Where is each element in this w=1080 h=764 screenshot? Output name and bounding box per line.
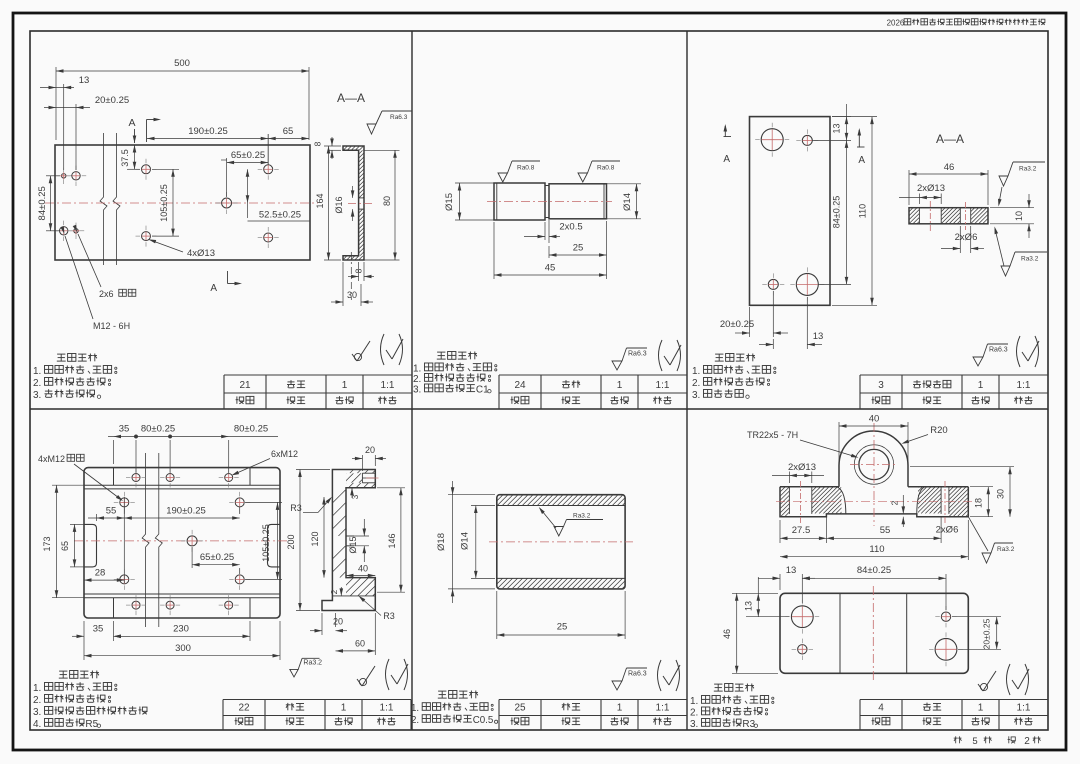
svg-text:37.5: 37.5: [120, 149, 130, 167]
cell1 break lines: [100, 133, 107, 265]
svg-text:Ø15: Ø15: [444, 193, 455, 211]
cell1 label 2x6 through hole: [78, 234, 101, 287]
svg-text:25: 25: [514, 703, 526, 714]
cell3 dim 13 bottom: [806, 297, 808, 349]
cell1 dim 37.5: [127, 168, 140, 170]
cell1 dim 84+-0.25 vertical: [46, 175, 60, 177]
surface mark cell 3: [973, 357, 983, 366]
svg-text:80: 80: [382, 196, 392, 206]
cell2 Ra0.8 mark left: [498, 173, 508, 182]
svg-text:52.5±0.25: 52.5±0.25: [259, 210, 301, 221]
title table part 21: [224, 374, 412, 376]
cell6 dim 40: [838, 422, 840, 461]
cell5 centerline: [489, 541, 633, 543]
svg-text:20: 20: [365, 445, 375, 455]
svg-text:M12 - 6H: M12 - 6H: [93, 321, 130, 331]
cell6 dim 46: [732, 592, 778, 594]
svg-text:1: 1: [617, 703, 623, 714]
cell1 dim 164: [324, 145, 341, 147]
cell1 hole 2x6 top: [62, 174, 66, 178]
cell1 dim 8 bottom flange: [358, 262, 360, 281]
cell6 dim 27.5: [779, 520, 781, 543]
svg-text:3.: 3.: [692, 390, 700, 401]
cell6 dim 13 left vertical: [757, 577, 759, 617]
cell4 dim 146 side: [377, 487, 405, 489]
svg-text:3: 3: [878, 380, 884, 391]
cell3 dim 110: [832, 116, 877, 118]
svg-text:A: A: [210, 283, 217, 294]
svg-text:1.: 1.: [33, 366, 41, 377]
cell1 hole d13 top-left: [142, 165, 151, 174]
svg-text:13: 13: [79, 75, 90, 86]
svg-text:1: 1: [617, 380, 623, 391]
cell4 side view slot top (tapped hole side view): [362, 472, 375, 474]
cell2 dim 45: [493, 222, 495, 279]
svg-text:60: 60: [355, 639, 365, 649]
cell4 plate outline: [84, 468, 280, 618]
cell3 section hole centerlines: [929, 201, 931, 231]
grid divider vertical 2: [686, 31, 688, 730]
svg-text:Ra6.3: Ra6.3: [628, 671, 647, 678]
svg-text:4xM12: 4xM12: [38, 454, 65, 464]
svg-text:500: 500: [174, 58, 190, 69]
cell4 dim 3 small: [351, 488, 353, 498]
cell4 dim 190+-0.25: [239, 507, 241, 514]
svg-text:1:1: 1:1: [380, 703, 394, 714]
cell4 dim 65+-0.25 center: [191, 547, 193, 568]
svg-text:2.: 2.: [33, 695, 41, 706]
cell1 hole M12 top: [72, 172, 80, 180]
cell4 break lines: [142, 453, 149, 627]
svg-text:1.: 1.: [692, 366, 700, 377]
svg-text:24: 24: [514, 380, 526, 391]
svg-text:1: 1: [978, 380, 984, 391]
svg-text:1:1: 1:1: [656, 380, 670, 391]
cell4 side hole lines: [346, 535, 354, 537]
svg-text:Ra6.3: Ra6.3: [628, 351, 647, 358]
svg-text:1.: 1.: [413, 364, 421, 375]
cell4 right notch: [268, 524, 281, 567]
tech notes cell 1: [57, 353, 65, 355]
cell2 dim 25: [606, 221, 608, 259]
cell6 boss dome R20: [839, 431, 908, 487]
cell5 Ra3.2 mark with leader: [554, 527, 564, 537]
title table part 25: [499, 699, 687, 701]
cell4 holes second row: [120, 498, 129, 507]
cell3 section bar outline: [909, 208, 988, 224]
svg-text:1: 1: [978, 703, 984, 714]
svg-text:1.: 1.: [690, 696, 698, 707]
svg-text:120: 120: [310, 531, 320, 546]
cell3 section hole edge lines: [918, 208, 920, 224]
svg-text:Ra3.2: Ra3.2: [1021, 256, 1039, 263]
cell1 hole d13 bottom-right: [264, 233, 273, 242]
cell6 bottom hole d6 right: [941, 612, 950, 621]
cell6 dim 84+-0.25 bottom view: [945, 574, 947, 610]
cell4 dim 20 side bottom: [321, 613, 323, 635]
cell4 bottom dim 230: [249, 621, 251, 641]
svg-text:20±0.25: 20±0.25: [982, 618, 992, 649]
tech notes cell 2: [437, 351, 445, 353]
cell4 dim 20 top slot: [361, 455, 363, 471]
svg-text:1.: 1.: [33, 683, 41, 694]
cell3 dim 13 right: [832, 116, 851, 118]
svg-text:A: A: [723, 154, 730, 165]
cell4 side view inner line: [332, 595, 375, 597]
surface mark cell 5: [612, 681, 622, 690]
cell4 dim 65 notch: [70, 523, 84, 525]
cell6 section fillet curves: [836, 487, 846, 514]
cell4 rail lines bottom: [84, 593, 280, 595]
svg-text:30: 30: [996, 489, 1006, 499]
svg-text:30: 30: [347, 290, 357, 300]
tech notes cell 6: [714, 683, 722, 685]
svg-text:Ra3.2: Ra3.2: [303, 660, 322, 667]
cell1 hole M12 bottom: [60, 227, 68, 235]
cell4 holes bottom row: [132, 601, 140, 609]
svg-text:230: 230: [173, 624, 189, 635]
svg-text:173: 173: [42, 536, 52, 551]
svg-text:25: 25: [557, 622, 568, 633]
svg-text:A—A: A—A: [936, 132, 964, 146]
surface mark cell 6: [980, 683, 987, 690]
cell4 rail lines top: [84, 484, 280, 486]
cell5 dim d14: [471, 505, 495, 507]
svg-text:55: 55: [106, 506, 117, 517]
svg-text:105±0.25: 105±0.25: [261, 524, 271, 561]
svg-text:2: 2: [329, 589, 339, 594]
cell3 dim 84+-0.25: [812, 139, 851, 141]
cell4 dim 200 side: [296, 469, 330, 471]
svg-text:80±0.25: 80±0.25: [234, 424, 268, 435]
cell3 Ra3.2 mark bottom: [1001, 266, 1010, 276]
svg-text:13: 13: [832, 123, 842, 133]
cell6 centerlines base holes: [800, 481, 802, 524]
cell6 bottom view outline: [780, 593, 968, 673]
grid divider vertical 1: [411, 31, 413, 730]
cell6 dim 20+-0.25 right: [952, 616, 1001, 618]
cell1 channel centerline: [348, 203, 372, 205]
cell1 dim 65+-0.25: [226, 158, 228, 197]
svg-text:1:1: 1:1: [1017, 380, 1031, 391]
surface mark Ra3.2 cell 4: [290, 669, 298, 677]
svg-text:R3: R3: [383, 611, 395, 621]
svg-text:C1: C1: [476, 385, 489, 396]
cell6 base top edges: [780, 486, 839, 488]
cell4 center hole: [187, 536, 197, 546]
tech notes cell 3: [715, 353, 723, 355]
svg-text:2xØ13: 2xØ13: [788, 462, 816, 473]
cell2 shaft body d15: [494, 183, 545, 220]
svg-text:1:1: 1:1: [1017, 703, 1031, 714]
cell4 dim 60 side: [374, 613, 376, 655]
cell3 dim 20+-0.25: [749, 307, 751, 337]
svg-text:45: 45: [545, 263, 556, 274]
svg-text:3.: 3.: [690, 719, 698, 730]
cell1 dim 105+-0.25: [152, 168, 179, 170]
svg-text:46: 46: [722, 629, 732, 639]
svg-text:2: 2: [1024, 736, 1030, 747]
cell5 dim d18: [448, 494, 495, 496]
svg-text:65±0.25: 65±0.25: [231, 150, 265, 161]
cell1 dim 52.5+-0.25: [247, 169, 249, 218]
svg-text:84±0.25: 84±0.25: [37, 186, 48, 220]
cell1 dim 30: [342, 262, 344, 306]
svg-text:4.: 4.: [33, 719, 41, 730]
cell4 holes third row: [120, 575, 129, 584]
svg-text:22: 22: [238, 703, 250, 714]
cell4 dim 173: [52, 484, 84, 486]
svg-text:2.: 2.: [33, 378, 41, 389]
svg-text:Ø14: Ø14: [460, 532, 471, 550]
svg-text:Ra3.2: Ra3.2: [1019, 166, 1037, 173]
svg-text:2.: 2.: [413, 374, 421, 385]
svg-text:Ra0.8: Ra0.8: [517, 165, 535, 172]
cell3 Ra3.2 mark top: [999, 176, 1008, 186]
cell1 label 4xd13: [150, 240, 184, 252]
cell3 plate front outline: [750, 117, 831, 306]
svg-text:13: 13: [786, 565, 797, 576]
svg-text:2xØ6: 2xØ6: [936, 525, 959, 536]
cell6 centerline vertical boss: [873, 423, 875, 526]
svg-text:35: 35: [119, 424, 130, 435]
cell2 shaft chamfer right: [603, 184, 605, 219]
cell4 dim 105+-0.25 right: [245, 501, 282, 503]
svg-text:80±0.25: 80±0.25: [141, 424, 175, 435]
tech notes cell 4: [59, 670, 67, 672]
svg-text:A: A: [858, 155, 865, 166]
svg-text:21: 21: [239, 380, 251, 391]
cell6 bottom view centerline: [872, 586, 874, 680]
cell1 dim 20+-0.25: [75, 104, 77, 170]
svg-text:28: 28: [95, 568, 106, 579]
svg-text:18: 18: [974, 498, 984, 508]
cell1 centerline: [45, 202, 318, 204]
cell4 centerline: [74, 540, 290, 542]
svg-text:35: 35: [93, 624, 104, 635]
svg-text:84±0.25: 84±0.25: [832, 196, 842, 228]
cell4 side view outline: [322, 470, 375, 611]
svg-text:110: 110: [869, 544, 884, 555]
svg-text:R20: R20: [930, 425, 947, 436]
cell6 dim 13 top: [779, 574, 781, 590]
svg-text:2xØ13: 2xØ13: [917, 183, 945, 194]
svg-text:2x6: 2x6: [99, 289, 114, 299]
svg-text:27.5: 27.5: [792, 525, 811, 536]
svg-text:3: 3: [351, 494, 360, 499]
svg-text:Ra6.3: Ra6.3: [989, 347, 1008, 354]
cell6 dim 18: [970, 486, 993, 488]
cell3 hole d13 bottom-right: [796, 273, 818, 295]
svg-text:1:1: 1:1: [381, 380, 395, 391]
cell4 dim 2 side: [340, 587, 342, 596]
svg-text:300: 300: [175, 643, 191, 654]
cell6 bottom hole d6 left: [798, 645, 807, 654]
svg-text:R3: R3: [742, 719, 755, 730]
cell2 Ra0.8 mark right: [578, 173, 588, 182]
svg-text:R5: R5: [85, 719, 98, 730]
svg-text:4: 4: [878, 703, 884, 714]
cell3 dim 10: [990, 207, 1034, 209]
svg-text:3.: 3.: [33, 390, 41, 401]
grid divider horizontal: [30, 408, 1048, 410]
cell2 groove neck: [545, 185, 549, 187]
cell1 channel hole d16 edges: [359, 197, 364, 199]
cell3 dim 46: [908, 170, 910, 205]
svg-text:Ø14: Ø14: [622, 193, 633, 211]
svg-text:2026: 2026: [887, 19, 905, 28]
svg-text:8: 8: [354, 268, 364, 273]
svg-text:A: A: [128, 117, 135, 129]
title table part 3: [860, 374, 1048, 376]
svg-text:3.: 3.: [33, 707, 41, 718]
svg-text:Ø18: Ø18: [436, 533, 447, 551]
cell4 bottom dim 300: [279, 621, 281, 660]
surface mark cell 1: [354, 353, 361, 360]
cell5 sleeve bore lines: [497, 505, 625, 507]
cell1 hole d13 bottom-left: [142, 232, 151, 241]
cell5 dim 25: [496, 591, 498, 639]
cell1 hole 2x6 bottom: [74, 229, 78, 233]
svg-text:105±0.25: 105±0.25: [159, 184, 169, 221]
cell1 hole d13 top-right: [264, 165, 273, 174]
svg-text:2.: 2.: [692, 378, 700, 389]
cell6 bottom view boss lines: [839, 593, 841, 673]
svg-text:R3: R3: [290, 503, 302, 513]
svg-text:4xØ13: 4xØ13: [187, 248, 215, 259]
cell2 centerline: [487, 201, 612, 203]
cell4 dim 120 side: [323, 497, 325, 578]
cell6 bottom hole d13 left: [791, 606, 813, 628]
svg-text:84±0.25: 84±0.25: [857, 565, 891, 576]
tech notes cell 5: [438, 690, 446, 692]
svg-text:46: 46: [944, 162, 955, 173]
svg-text:40: 40: [869, 414, 880, 425]
cell1 dim d16: [352, 186, 354, 198]
svg-text:164: 164: [315, 193, 325, 208]
svg-text:2.: 2.: [690, 708, 698, 719]
svg-text:65±0.25: 65±0.25: [200, 552, 234, 563]
cell1 dim 500: [55, 67, 57, 140]
svg-text:13: 13: [744, 601, 754, 611]
cell6 Ra3.2 with leader: [968, 517, 988, 551]
svg-text:Ra3.2: Ra3.2: [573, 513, 591, 520]
cell2 shaft body d14: [549, 184, 607, 219]
svg-text:65: 65: [283, 126, 294, 137]
surface mark cell 4: [359, 678, 366, 685]
svg-text:1.: 1.: [411, 703, 419, 714]
cell1 dim 80: [364, 149, 400, 151]
svg-text:Ø16: Ø16: [334, 196, 344, 213]
svg-text:190±0.25: 190±0.25: [188, 126, 228, 137]
cell5 sleeve outline: [497, 495, 625, 589]
cell6 dim 30: [910, 466, 1014, 468]
svg-text:1: 1: [342, 380, 348, 391]
title table part 4: [860, 699, 1048, 701]
svg-text:110: 110: [858, 204, 868, 218]
svg-text:10: 10: [1014, 211, 1024, 221]
svg-text:8: 8: [313, 141, 323, 146]
cell6 centerline hole horizontal: [850, 464, 898, 466]
svg-text:Ra0.8: Ra0.8: [597, 165, 615, 172]
svg-text:55: 55: [880, 525, 891, 536]
svg-text:C0.5: C0.5: [473, 715, 494, 726]
svg-text:40: 40: [358, 564, 368, 574]
cell1 dim 65 top: [268, 138, 309, 140]
surface mark cell 2: [612, 361, 622, 370]
cell1 plate front view outline: [55, 145, 310, 260]
svg-text:190±0.25: 190±0.25: [166, 506, 206, 517]
svg-text:65: 65: [60, 541, 70, 551]
cell6 base outline: [780, 487, 968, 517]
cell4 top chain dims 35 80 80: [113, 440, 115, 464]
svg-text:1: 1: [341, 703, 347, 714]
cell2 shaft chamfer left: [496, 183, 498, 220]
cell6 dim 2 step: [902, 495, 904, 514]
cell1 section Ra6.3 mark: [367, 124, 376, 134]
svg-text:1:1: 1:1: [656, 703, 670, 714]
svg-text:25: 25: [573, 243, 584, 254]
svg-text:Ra6.3: Ra6.3: [390, 114, 408, 121]
cell3 hole d6 bottom-left: [768, 279, 778, 289]
cell2 dim d14: [607, 183, 642, 185]
svg-text:200: 200: [286, 534, 296, 549]
cell1 channel vertical centerline bottom: [350, 252, 352, 300]
cell4 left notch: [84, 524, 97, 567]
svg-text:20: 20: [333, 617, 343, 627]
svg-text:2.: 2.: [411, 715, 419, 726]
cell6 dim 55: [940, 517, 942, 543]
cell6 thread hole circles: [859, 449, 889, 479]
cell1 dim 13: [63, 84, 65, 170]
cell6 dim 110: [967, 520, 969, 560]
svg-text:20±0.25: 20±0.25: [95, 95, 129, 106]
cell6 bottom ext line hole left: [746, 616, 789, 618]
svg-text:Ø15: Ø15: [348, 536, 358, 553]
cell3 section arrow right: [858, 130, 860, 148]
svg-text:2x0.5: 2x0.5: [559, 222, 582, 233]
cell4 dim d15 side: [346, 535, 369, 537]
svg-text:Ra3.2: Ra3.2: [997, 546, 1015, 553]
cell6 bottom hole d13 right: [935, 638, 957, 660]
cell1 dim 8 top flange: [328, 149, 341, 151]
svg-text:6xM12: 6xM12: [271, 449, 298, 459]
cell6 base hole edge lines: [788, 487, 790, 514]
svg-text:5: 5: [972, 736, 977, 747]
cell1 label M12-6H: [65, 236, 93, 319]
svg-text:A—A: A—A: [337, 91, 365, 105]
cell4 dim 28: [123, 507, 125, 583]
cell1 center hole: [222, 198, 232, 208]
svg-text:146: 146: [387, 533, 397, 548]
cell6 centerline base horizontal: [776, 501, 972, 503]
cell4 holes top row: [132, 474, 140, 482]
cell3 section arrow left: [724, 126, 726, 137]
svg-text:20±0.25: 20±0.25: [720, 319, 754, 330]
cell1 channel section outline: [343, 146, 364, 260]
svg-text:13: 13: [813, 331, 824, 342]
svg-text:3.: 3.: [413, 385, 421, 396]
svg-text:2: 2: [890, 500, 900, 505]
svg-text:2xØ6: 2xØ6: [955, 232, 978, 243]
cell3 hole d6 top-right: [802, 135, 812, 145]
svg-text:TR22x5 - 7H: TR22x5 - 7H: [747, 430, 798, 440]
title table part 22: [223, 699, 411, 701]
cell4 dim 55: [96, 514, 98, 521]
page number text: [955, 736, 957, 743]
cell2 dim d15: [455, 182, 494, 184]
cell1 dim 190+-0.25: [267, 134, 269, 165]
